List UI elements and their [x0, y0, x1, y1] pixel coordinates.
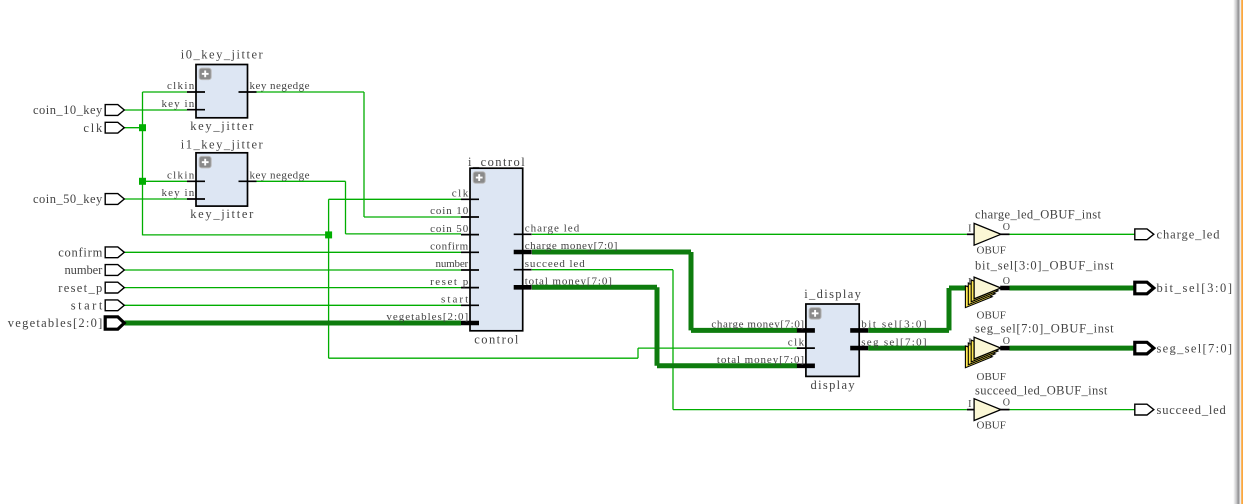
svg-text:succeed led: succeed led	[525, 258, 586, 270]
svg-text:i_display: i_display	[804, 287, 861, 301]
svg-text:OBUF: OBUF	[977, 371, 1006, 383]
svg-text:coin 50: coin 50	[430, 223, 469, 235]
svg-text:display: display	[811, 378, 856, 392]
svg-text:I: I	[968, 277, 971, 288]
svg-text:vegetables[2:0]: vegetables[2:0]	[8, 316, 103, 330]
svg-text:I: I	[968, 399, 971, 410]
svg-text:charge money[7:0]: charge money[7:0]	[711, 319, 804, 331]
svg-text:OBUF: OBUF	[977, 420, 1006, 432]
svg-text:coin 10: coin 10	[430, 205, 469, 217]
svg-text:clkin: clkin	[167, 170, 195, 182]
svg-text:clk: clk	[83, 121, 103, 135]
svg-text:number: number	[436, 258, 469, 270]
svg-text:total money[7:0]: total money[7:0]	[525, 276, 612, 288]
svg-text:confirm: confirm	[430, 241, 469, 253]
svg-text:vegetables[2:0]: vegetables[2:0]	[386, 311, 468, 323]
svg-text:succeed_led: succeed_led	[1157, 403, 1227, 417]
svg-text:bit sel[3:0]: bit sel[3:0]	[861, 319, 926, 331]
svg-text:confirm: confirm	[58, 246, 102, 260]
svg-text:i1_key_jitter: i1_key_jitter	[181, 138, 264, 152]
svg-text:key negedge: key negedge	[250, 80, 310, 92]
svg-text:key in: key in	[162, 187, 195, 199]
svg-text:key negedge: key negedge	[250, 170, 310, 182]
svg-text:succeed_led_OBUF_inst: succeed_led_OBUF_inst	[975, 384, 1108, 398]
svg-text:seg_sel[7:0]: seg_sel[7:0]	[1157, 341, 1233, 355]
svg-text:total money[7:0]: total money[7:0]	[717, 354, 804, 366]
svg-text:clkin: clkin	[167, 80, 195, 92]
svg-text:OBUF: OBUF	[977, 244, 1006, 256]
svg-text:i0_key_jitter: i0_key_jitter	[181, 48, 264, 62]
svg-text:I: I	[968, 224, 971, 235]
svg-text:bit_sel[3:0]: bit_sel[3:0]	[1157, 281, 1233, 295]
svg-text:charge_led_OBUF_inst: charge_led_OBUF_inst	[975, 208, 1102, 222]
svg-text:seg_sel[7:0]_OBUF_inst: seg_sel[7:0]_OBUF_inst	[975, 321, 1114, 335]
svg-text:start: start	[71, 299, 103, 313]
svg-text:reset_p: reset_p	[58, 281, 102, 295]
svg-text:coin_10_key: coin_10_key	[33, 103, 103, 117]
svg-text:O: O	[1003, 336, 1010, 347]
svg-text:O: O	[1003, 397, 1010, 408]
svg-text:number: number	[65, 263, 104, 277]
svg-text:coin_50_key: coin_50_key	[33, 192, 103, 206]
svg-text:key in: key in	[162, 98, 195, 110]
svg-text:charge_led: charge_led	[1157, 228, 1221, 242]
svg-text:key_jitter: key_jitter	[190, 119, 254, 133]
svg-text:i_control: i_control	[468, 155, 525, 169]
svg-text:clk: clk	[452, 188, 469, 200]
svg-text:key_jitter: key_jitter	[190, 207, 254, 221]
svg-text:seg sel[7:0]: seg sel[7:0]	[861, 336, 926, 348]
svg-text:clk: clk	[788, 336, 805, 348]
svg-text:O: O	[1003, 276, 1010, 287]
svg-text:charge money[7:0]: charge money[7:0]	[525, 240, 618, 252]
svg-text:reset p: reset p	[430, 276, 469, 288]
svg-text:bit_sel[3:0]_OBUF_inst: bit_sel[3:0]_OBUF_inst	[975, 259, 1114, 273]
svg-text:control: control	[474, 333, 519, 347]
svg-text:OBUF: OBUF	[977, 310, 1006, 322]
svg-text:charge led: charge led	[525, 223, 580, 235]
svg-text:O: O	[1003, 222, 1010, 233]
svg-text:I: I	[968, 337, 971, 348]
